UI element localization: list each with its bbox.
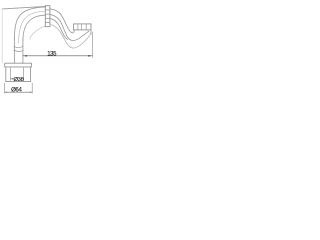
dim line d38: [11, 78, 24, 80]
dim ext lines d38: [11, 68, 24, 81]
pipe end cap: [90, 30, 92, 34]
cup flange: [5, 63, 32, 67]
wire s-pipe lower wall: [50, 18, 67, 39]
dim line d64: [5, 91, 33, 93]
dim arrow 135 right: [88, 55, 92, 57]
dim arrows d64: [5, 92, 33, 93]
nut top (inlet union): [45, 6, 50, 27]
svg-text:Ø64: Ø64: [11, 87, 22, 93]
nut right dividers: [78, 24, 86, 30]
wire vertical pipe right wall: [22, 38, 24, 63]
svg-text:Ø38: Ø38: [13, 77, 23, 83]
nut top internal lines: [45, 10, 50, 23]
svg-text:135: 135: [47, 51, 57, 57]
union joint upper arc: [14, 46, 24, 48]
dim line 135: [23, 55, 92, 57]
dim arrows d38: [11, 78, 24, 79]
wire phantom lower sweep: [50, 24, 91, 48]
wire s-pipe upper wall: [50, 9, 74, 33]
cup body: [6, 67, 31, 82]
nut right (outlet): [74, 24, 91, 30]
dim arrow 135 left: [23, 55, 27, 57]
wire bend inner arc: [23, 15, 46, 41]
wire vertical pipe left wall: [13, 38, 15, 63]
wire left faint vertical: [1, 9, 3, 63]
wire faint arc from fitting base: [30, 26, 45, 39]
label d38: [13, 76, 23, 83]
dim ext line 135 right: [91, 32, 93, 58]
wire s-pipe middle wall: [50, 14, 89, 40]
wire bend outer arc: [14, 7, 45, 40]
dim ext lines d64: [5, 83, 33, 93]
wire bend middle arc: [19, 11, 46, 43]
union joint lower arc: [14, 50, 24, 52]
wire top wall line: [2, 6, 45, 8]
